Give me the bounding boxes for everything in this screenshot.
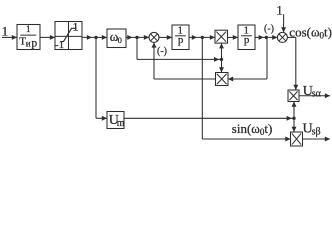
svg-text:и: и	[26, 39, 31, 49]
svg-text:(-): (-)	[157, 46, 167, 57]
svg-text:sin(ω0t): sin(ω0t)	[232, 121, 273, 137]
svg-text:p: p	[178, 34, 184, 46]
svg-text:1: 1	[2, 23, 9, 38]
svg-text:m: m	[117, 118, 125, 129]
svg-text:p: p	[244, 34, 250, 46]
svg-text:sβ: sβ	[312, 126, 321, 137]
svg-text:p: p	[31, 37, 37, 49]
svg-text:cos(ω0t): cos(ω0t)	[289, 25, 332, 41]
svg-text:sα: sα	[312, 88, 322, 99]
svg-text:1: 1	[26, 24, 31, 34]
svg-text:(-): (-)	[264, 24, 274, 35]
svg-text:0: 0	[118, 35, 122, 45]
svg-text:1: 1	[276, 3, 283, 18]
svg-text:-1: -1	[55, 39, 64, 51]
svg-text:1: 1	[73, 20, 79, 34]
